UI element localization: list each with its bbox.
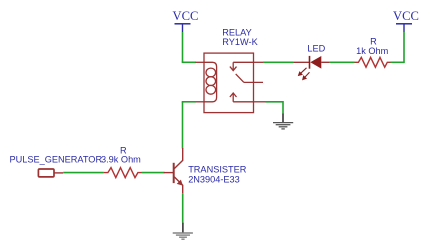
relay pin stub left top xyxy=(196,61,205,63)
wire resistor to transistor base xyxy=(142,172,165,174)
svg-text:VCC: VCC xyxy=(173,9,199,23)
relay switch xyxy=(230,62,263,102)
svg-text:RELAY: RELAY xyxy=(222,28,251,38)
wire emitter to ground xyxy=(182,193,184,222)
wire LED to resistor R1k xyxy=(330,61,355,63)
relay U? box xyxy=(204,53,254,113)
port PULSE_GENERATOR xyxy=(10,155,103,177)
wire relay right bottom to ground xyxy=(266,101,284,103)
svg-text:PULSE_GENERATOR: PULSE_GENERATOR xyxy=(10,155,103,165)
svg-text:VCC: VCC xyxy=(393,9,419,23)
svg-text:2N3904-E33: 2N3904-E33 xyxy=(188,175,240,185)
resistor R 3.9k Ohm xyxy=(101,145,142,177)
ground (right of relay) xyxy=(273,114,293,129)
svg-text:3.9k Ohm: 3.9k Ohm xyxy=(101,155,141,165)
LED D? xyxy=(293,44,329,69)
power symbol VCC right xyxy=(393,9,419,32)
wire to relay coil top xyxy=(182,61,196,63)
wire relay right top to LED xyxy=(263,61,293,63)
wire VCC left down xyxy=(182,32,184,62)
relay pin stub right bottom xyxy=(254,101,266,103)
svg-text:LED: LED xyxy=(307,44,325,54)
resistor R 1k Ohm xyxy=(355,37,391,68)
relay coil xyxy=(204,62,217,102)
relay pin stub right top xyxy=(254,61,264,63)
LED emission arrows xyxy=(299,68,310,80)
wire resistor to VCC right xyxy=(391,61,405,63)
svg-text:1k Ohm: 1k Ohm xyxy=(356,46,389,56)
wire node down to transistor collector xyxy=(182,102,184,149)
wire coil bottom to node xyxy=(182,101,196,103)
ground (bottom) xyxy=(173,223,193,240)
transistor Q? 2N3904 xyxy=(164,148,183,193)
power symbol VCC left xyxy=(173,9,199,32)
svg-text:TRANSISTER: TRANSISTER xyxy=(188,164,247,174)
wire port to resistor R3.9k xyxy=(63,172,103,174)
svg-text:RY1W-K: RY1W-K xyxy=(222,37,258,47)
relay pin stub left bottom xyxy=(196,101,205,103)
